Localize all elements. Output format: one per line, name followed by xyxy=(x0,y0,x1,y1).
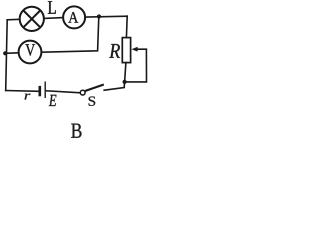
label R xyxy=(109,44,120,58)
label S xyxy=(89,97,96,106)
wire right vertical to rheostat top xyxy=(125,16,128,37)
label E xyxy=(49,95,57,106)
wire junction down to bottom wire xyxy=(104,82,124,90)
switch S lever xyxy=(85,85,104,92)
wire top-left corner to lamp xyxy=(7,18,19,21)
switch S pivot xyxy=(80,90,85,95)
node junction dot rheostat bottom xyxy=(123,80,127,84)
battery short thick plate xyxy=(38,86,41,96)
wire rheostat wiper loop xyxy=(125,49,147,82)
wire ammeter to top-right corner xyxy=(86,15,127,18)
wire rheostat bottom lead xyxy=(125,63,126,82)
wire voltmeter right lead xyxy=(42,17,99,53)
wire voltmeter left lead xyxy=(5,52,18,55)
resistor R rheostat body xyxy=(122,38,130,63)
label A xyxy=(68,12,78,23)
label r xyxy=(25,94,31,100)
wire bottom-left corner to battery xyxy=(6,90,39,93)
rheostat wiper arrowhead xyxy=(132,47,138,52)
voltmeter V xyxy=(19,41,42,64)
battery long thin plate xyxy=(44,82,46,99)
lamp L symbol xyxy=(20,7,44,31)
ammeter A xyxy=(63,6,85,28)
wire left vertical xyxy=(6,20,8,91)
label L xyxy=(48,1,56,14)
wire lamp to ammeter xyxy=(44,17,62,20)
wire battery to switch pivot xyxy=(46,91,80,93)
label V xyxy=(25,44,35,56)
node junction dot left xyxy=(3,51,7,55)
label B xyxy=(71,124,81,138)
node junction dot top xyxy=(97,14,101,18)
